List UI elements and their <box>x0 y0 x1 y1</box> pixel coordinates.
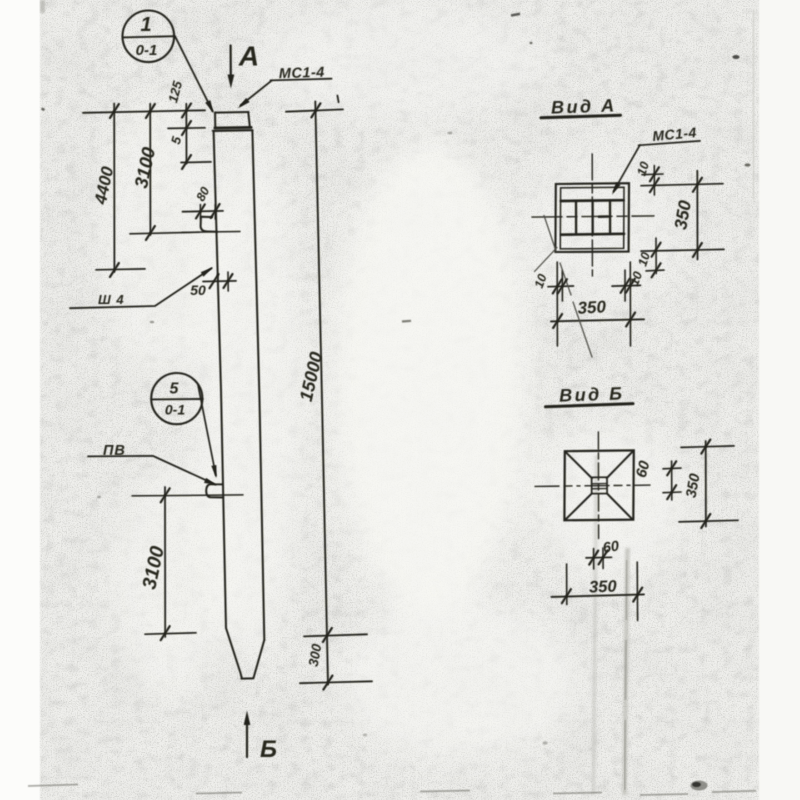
svg-text:Ш 4: Ш 4 <box>98 292 125 307</box>
svg-text:350: 350 <box>589 577 618 596</box>
svg-text:0-1: 0-1 <box>136 42 158 59</box>
svg-text:Вид А: Вид А <box>551 95 617 117</box>
svg-text:А: А <box>238 41 259 72</box>
svg-text:МС1-4: МС1-4 <box>279 65 326 83</box>
svg-text:Вид Б: Вид Б <box>559 383 625 405</box>
svg-text:0-1: 0-1 <box>165 402 185 418</box>
svg-text:60: 60 <box>602 538 620 556</box>
svg-text:ПВ: ПВ <box>103 443 126 459</box>
svg-text:5: 5 <box>170 381 180 398</box>
svg-text:1: 1 <box>140 14 151 36</box>
svg-text:50: 50 <box>190 282 206 298</box>
svg-text:350: 350 <box>577 297 607 317</box>
svg-text:Б: Б <box>260 736 277 763</box>
